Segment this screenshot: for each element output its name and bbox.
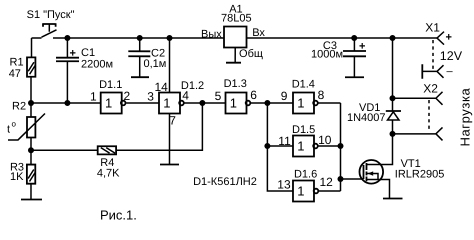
- svg-text:+: +: [359, 41, 365, 53]
- svg-text:D1.1: D1.1: [99, 79, 122, 91]
- svg-text:78L05: 78L05: [221, 13, 252, 25]
- svg-text:2200м: 2200м: [81, 58, 113, 70]
- svg-text:13: 13: [277, 178, 291, 192]
- svg-text:2: 2: [124, 89, 131, 103]
- svg-text:R2: R2: [12, 100, 26, 112]
- svg-text:Вх: Вх: [252, 27, 265, 39]
- svg-text:C1: C1: [81, 47, 95, 59]
- svg-text:D1.6: D1.6: [294, 169, 317, 181]
- svg-text:1: 1: [297, 96, 304, 111]
- svg-text:1: 1: [297, 139, 304, 154]
- svg-text:X2: X2: [423, 82, 438, 96]
- svg-text:1: 1: [105, 96, 112, 111]
- svg-text:1N4007: 1N4007: [347, 112, 386, 124]
- svg-text:4: 4: [182, 88, 189, 102]
- svg-text:14: 14: [155, 80, 169, 94]
- svg-text:+: +: [70, 47, 76, 59]
- svg-text:7: 7: [169, 113, 176, 127]
- svg-text:D1.3: D1.3: [224, 78, 247, 90]
- svg-text:1: 1: [230, 96, 237, 111]
- svg-text:–: –: [447, 66, 454, 78]
- svg-text:8: 8: [318, 88, 325, 102]
- svg-text:Нагрузка: Нагрузка: [457, 87, 472, 146]
- svg-text:5: 5: [215, 89, 222, 103]
- svg-text:Рис.1.: Рис.1.: [100, 207, 137, 220]
- svg-text:9: 9: [281, 89, 288, 103]
- svg-text:Вых: Вых: [201, 28, 222, 40]
- svg-text:0,1м: 0,1м: [144, 58, 167, 70]
- svg-text:o: o: [11, 119, 16, 128]
- svg-text:t: t: [7, 123, 10, 135]
- svg-text:3: 3: [147, 89, 154, 103]
- svg-text:Общ: Общ: [239, 48, 263, 60]
- svg-text:S1 "Пуск": S1 "Пуск": [27, 9, 75, 21]
- svg-text:10: 10: [318, 133, 332, 147]
- svg-text:1000м: 1000м: [311, 48, 343, 60]
- svg-text:IRLR2905: IRLR2905: [395, 169, 445, 181]
- svg-text:47: 47: [9, 68, 21, 80]
- svg-text:X1: X1: [425, 20, 440, 34]
- svg-text:D1.5: D1.5: [292, 124, 315, 136]
- svg-text:+: +: [446, 32, 452, 44]
- svg-text:11: 11: [278, 134, 291, 148]
- svg-text:1: 1: [90, 89, 97, 103]
- svg-text:6: 6: [250, 88, 257, 102]
- svg-text:12V: 12V: [440, 49, 463, 63]
- svg-text:4,7K: 4,7K: [97, 167, 120, 179]
- svg-text:12: 12: [319, 175, 333, 189]
- svg-text:1: 1: [163, 96, 170, 111]
- svg-text:1K: 1K: [10, 171, 24, 183]
- svg-text:D1-К561ЛН2: D1-К561ЛН2: [193, 176, 257, 188]
- svg-text:R1: R1: [10, 56, 24, 68]
- svg-text:D1.4: D1.4: [292, 79, 315, 91]
- svg-text:1: 1: [297, 184, 304, 199]
